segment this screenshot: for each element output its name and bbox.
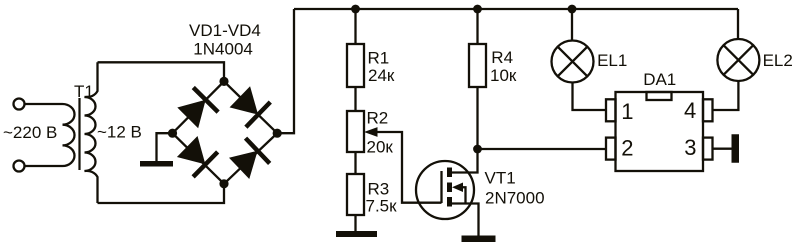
VT1 channel body segment [447,183,452,193]
svg-text:R2: R2 [367,109,389,128]
ground at bridge [140,161,173,167]
resistor R3 [347,174,364,215]
VT1 body lead [462,187,466,203]
transistor VT1 [416,161,474,219]
wire R3 to ground [354,215,356,231]
input terminal top [14,99,25,110]
wire top supply rail [294,8,738,10]
svg-text:~220 В: ~220 В [3,123,57,142]
wire VT1 drain [452,149,478,173]
node bridge left [168,129,177,138]
ground under VT1 [462,236,496,243]
wire pin2 to drain junction [478,148,607,150]
svg-text:R1: R1 [368,49,390,68]
wire rail to R1 [354,9,356,44]
node bridge bottom [219,179,228,188]
wire R1 to R2 [354,87,356,111]
node rail R4 [473,5,482,14]
wire secondary bottom to bridge bottom node [98,184,225,203]
wire R4 to drain junction [476,87,478,149]
transformer T1 primary winding [25,104,75,166]
DA1 pin 4 pad [703,99,713,121]
wire pin3 to touch plate [713,148,732,150]
svg-text:EL2: EL2 [763,51,793,70]
VT1 gate electrode [440,171,442,203]
wire R2 to R3 [354,152,356,174]
wire bridge left node to ground [157,133,173,161]
wire R2 wiper to VT1 gate [375,132,442,203]
diode VD2 [228,84,271,127]
IC DA1 [616,92,704,171]
DA1 orientation notch [647,92,672,100]
wire VT1 source to ground [452,204,479,236]
resistor R1 [347,44,364,87]
svg-text:EL1: EL1 [597,51,627,70]
svg-text:4: 4 [684,98,696,123]
svg-text:1: 1 [621,99,633,124]
wire rail to EL2 [737,9,739,39]
svg-text:10к: 10к [490,66,517,85]
svg-text:Т1: Т1 [74,82,94,101]
diode VD4 [227,138,270,181]
svg-text:2: 2 [621,135,633,160]
diode VD1 [175,87,218,130]
resistor R4 [469,44,486,87]
wire rail to EL1 [571,9,573,41]
svg-text:24к: 24к [368,66,395,85]
wire EL1 to pin1 [573,83,607,111]
input terminal bottom [14,161,25,172]
node bridge top [219,77,228,86]
node rail R1 [351,5,360,14]
transformer T1 core [78,98,80,170]
DA1 pin 3 pad [703,138,713,160]
VT1 channel source segment [447,197,452,207]
wire EL2 to pin4 [713,81,739,110]
svg-text:3: 3 [684,135,696,160]
diode VD3 [175,134,218,177]
svg-text:DA1: DA1 [643,70,676,89]
svg-text:20к: 20к [367,138,394,157]
wire rail to R4 [476,9,478,44]
svg-text:VT1: VT1 [485,169,516,188]
node drain junction [473,145,482,154]
ground under R3 [336,231,377,237]
svg-text:VD1-VD4: VD1-VD4 [189,21,261,40]
wire secondary top to bridge top node [98,62,225,81]
R2 wiper arrow [364,127,378,137]
svg-text:7.5к: 7.5к [366,197,398,216]
touch plate electrode [732,134,740,163]
wire bridge right node to top rail [277,9,294,133]
VT1 body arrow [452,183,463,193]
VT1 channel drain segment [447,168,452,178]
svg-text:1N4004: 1N4004 [193,39,253,58]
resistor R2 (potentiometer) [347,111,364,152]
transformer T1 secondary winding [85,62,98,203]
svg-text:2N7000: 2N7000 [485,189,545,208]
svg-text:~12 В: ~12 В [97,122,142,141]
node rail EL1 [568,5,577,14]
svg-text:R4: R4 [491,48,513,67]
DA1 pin 2 pad [606,138,616,160]
node bridge right [273,129,282,138]
lamp EL1 [552,41,594,83]
bridge edge wires [173,81,278,183]
lamp EL2 [717,39,759,81]
DA1 pin 1 pad [606,99,616,121]
